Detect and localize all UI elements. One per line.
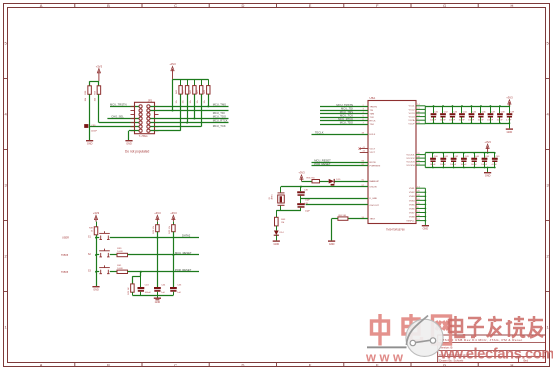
wire OSC mid node (300, 196, 302, 203)
svg-text:VCCIO4: VCCIO4 (406, 165, 415, 167)
watermark cntronics logo chars (372, 314, 451, 346)
wire R47 to row6 (201, 94, 203, 127)
wire R45 to row5 (187, 94, 189, 123)
frame grid numbers 5-1 (4, 41, 549, 330)
resistor R46 (194, 79, 196, 85)
svg-text:RSTN: RSTN (370, 162, 376, 164)
wire POR_RESET / pin PORRSTN (312, 165, 369, 167)
svg-text:10k: 10k (190, 100, 192, 103)
svg-text:+3V3: +3V3 (484, 140, 491, 144)
svg-text:CHG_SEL: CHG_SEL (111, 115, 124, 119)
svg-text:VCC4: VCC4 (409, 117, 416, 119)
capacitor C43 (reset filter) (140, 276, 142, 287)
svg-text:+3V3: +3V3 (169, 62, 176, 66)
watermark cntronics chip logo (406, 316, 443, 357)
svg-text:VSS7: VSS7 (409, 212, 415, 214)
svg-text:TECLK: TECLK (315, 130, 324, 134)
svg-text:ww.elecfans.com: ww.elecfans.com (440, 346, 553, 362)
capacitor C42 (453, 153, 455, 158)
svg-text:10k: 10k (197, 100, 199, 103)
svg-text:E: E (309, 362, 312, 367)
svg-text:GND: GND (329, 243, 335, 246)
capacitor C49 (494, 153, 496, 158)
capacitor C37 (490, 106, 492, 113)
svg-text:10pF: 10pF (305, 200, 311, 202)
svg-text:100R: 100R (117, 251, 123, 253)
supply +3V3 (cap bank 2) (487, 146, 489, 153)
capacitor C41 (443, 153, 445, 158)
svg-text:100nF: 100nF (450, 164, 457, 166)
wire OSCOUT (306, 204, 368, 206)
svg-text:GND: GND (87, 143, 93, 146)
svg-text:VCCIO1: VCCIO1 (406, 155, 415, 157)
svg-text:K_GND: K_GND (370, 198, 378, 200)
pin V1CT (unconnected stub) (360, 148, 368, 150)
svg-text:ECLK: ECLK (370, 134, 376, 136)
supply +3V3 (cap bank 1) (508, 102, 510, 106)
svg-text:+3V3: +3V3 (154, 211, 161, 215)
supply +3V3 (R33) (172, 218, 174, 222)
svg-text:4MHz: 4MHz (272, 194, 274, 199)
wire S3 to R41 (110, 271, 117, 273)
svg-text:10k: 10k (204, 100, 206, 103)
resistor R38 1k (96, 222, 98, 227)
wire JTAG row4 out (MCU_TDO) (148, 118, 228, 120)
svg-text:VCC2: VCC2 (409, 109, 416, 111)
svg-text:VSSPLL: VSSPLL (406, 221, 415, 223)
svg-text:VCC3: VCC3 (409, 113, 416, 115)
svg-text:100nF: 100nF (449, 120, 456, 122)
ground GND (TEST) (331, 239, 333, 241)
wire OSCIN (281, 186, 368, 188)
svg-text:POR_RESET: POR_RESET (314, 162, 331, 166)
svg-text:USER: USER (62, 236, 69, 239)
resistor R33 10k (173, 222, 175, 225)
wire JTAG row5 out (MCU_RTCK) (148, 122, 228, 124)
svg-text:10pF: 10pF (305, 210, 311, 212)
svg-text:MCU_TMS: MCU_TMS (340, 110, 353, 114)
svg-text:T0505: T0505 (61, 271, 69, 274)
capacitor C35 (471, 106, 473, 113)
supply +3V3 (R38) (95, 218, 97, 222)
svg-text:MCU_TCK: MCU_TCK (213, 124, 226, 128)
svg-text:w w w: w w w (365, 350, 403, 365)
svg-text:+3V3: +3V3 (170, 211, 177, 215)
supply +3V3 (JTAG pullups left) (98, 71, 100, 82)
wire GND bus 2 (425, 167, 495, 169)
resistor R45 (187, 79, 189, 85)
wire MCU_TDI / pin TDI (320, 110, 368, 112)
ground GND (cap bank 1) (509, 123, 511, 128)
svg-text:TCK: TCK (370, 117, 375, 119)
wire +3V3 to R35 (302, 181, 313, 183)
svg-text:R34 10k: R34 10k (153, 226, 155, 233)
resistor R43 1M (275, 217, 279, 226)
resistor R36 1M (131, 284, 135, 292)
diode D14 (276, 226, 278, 231)
switch S2 (99, 249, 110, 257)
svg-text:G: G (443, 3, 446, 8)
svg-text:JP2: JP2 (148, 100, 153, 103)
capacitor C32 (442, 106, 444, 113)
capacitor C31 (433, 106, 435, 113)
wire R46 to row4 (194, 94, 196, 118)
capacitor C39 (84, 124, 88, 128)
capacitor C46 (300, 187, 302, 192)
svg-text:C: C (174, 362, 177, 367)
net label CHG_SEL / wire to JTAG row4 (107, 118, 140, 120)
svg-text:100nF: 100nF (487, 120, 494, 122)
svg-text:TMS: TMS (370, 114, 375, 116)
svg-text:+3V3: +3V3 (96, 64, 103, 68)
resistor R34 10k (157, 222, 159, 225)
wire R41 to POR_RESET net (128, 271, 200, 273)
capacitor C39 (509, 106, 511, 113)
resistor R49 (97, 86, 101, 95)
svg-text:1uF: 1uF (177, 292, 181, 294)
svg-text:VSS2: VSS2 (409, 192, 415, 194)
capacitor C44 (474, 153, 476, 158)
wire VCC bus (top) (425, 106, 509, 108)
wire R33 column down to C45 (173, 232, 175, 287)
svg-text:4.7uF: 4.7uF (492, 164, 498, 166)
wire ECLK pin (312, 134, 369, 136)
svg-text:TDO: TDO (370, 124, 375, 126)
wire +3V3 column to row2 (172, 79, 174, 110)
svg-text:1uF: 1uF (161, 292, 165, 294)
wire S2 to R39 (110, 254, 117, 256)
ground GND (below C39) (89, 139, 91, 141)
svg-text:100nF: 100nF (471, 164, 478, 166)
svg-text:R35 7k5: R35 7k5 (307, 177, 316, 179)
svg-text:R33 10k: R33 10k (169, 226, 171, 233)
svg-text:+3V3: +3V3 (93, 211, 100, 215)
resistor R50 (88, 86, 92, 95)
wire JTAG row2 out (MCU_TDI) (148, 110, 228, 112)
svg-text:GND: GND (423, 228, 429, 231)
wire pullup bus (173, 79, 209, 81)
resistor R48 (208, 79, 210, 85)
wire MCU_TCK / pin TCK (320, 117, 368, 119)
svg-text:VSS6: VSS6 (409, 208, 415, 210)
svg-text:GND: GND (155, 301, 161, 304)
wire MCU_TRSTN / pin TRSTN (320, 106, 368, 108)
svg-text:VCCIO3: VCCIO3 (406, 162, 415, 164)
svg-text:G: G (443, 362, 446, 367)
capacitor C45 (170, 287, 177, 289)
wire JTAG row1 out (MCU_TMS) (148, 106, 228, 108)
svg-text:VSS1: VSS1 (409, 188, 415, 190)
watermark gray underline (367, 346, 407, 348)
svg-text:H: H (510, 3, 513, 8)
wire R48 to row1 (208, 94, 210, 106)
wire junction to R36 (140, 271, 142, 273)
svg-text:MCU_TDO: MCU_TDO (213, 115, 226, 119)
wire +3V3 to R49/R50 tops (90, 81, 99, 83)
resistor R39 100R (117, 253, 128, 256)
wire GND bus (below caps) (425, 123, 509, 125)
pin V2CT (unconnected stub) (360, 152, 368, 154)
wire R39 to MCU_RESET net (128, 254, 200, 256)
svg-text:MCU_RESET: MCU_RESET (314, 158, 331, 162)
svg-text:WAKEUP: WAKEUP (370, 180, 380, 183)
capacitor C48 (297, 203, 305, 205)
svg-text:+3V3: +3V3 (298, 171, 305, 175)
svg-text:GND: GND (93, 289, 99, 292)
supply +3V3 (JTAG pullup bank) (172, 69, 174, 80)
wire cap bottom bus (132, 295, 173, 297)
svg-text:OSCIN: OSCIN (370, 187, 377, 189)
svg-text:GND: GND (274, 243, 280, 246)
svg-text:R42 0R: R42 0R (339, 215, 347, 217)
svg-text:MCU_TCK: MCU_TCK (340, 113, 353, 117)
resistor R41 100R (117, 270, 128, 273)
svg-text:VCCA: VCCA (408, 119, 415, 122)
svg-text:OSCOUT: OSCOUT (370, 205, 380, 207)
capacitor C45 (484, 153, 486, 158)
svg-text:100nF: 100nF (459, 120, 466, 122)
svg-text:GND: GND (507, 131, 513, 134)
svg-text:10k: 10k (183, 100, 185, 103)
svg-text:100nF: 100nF (481, 164, 488, 166)
svg-text:1M: 1M (281, 222, 284, 224)
svg-text:U5A: U5A (370, 96, 376, 100)
pins VCCIO1-4 right stubs (416, 153, 425, 168)
wire stub S1 left (96, 237, 99, 239)
ground GND (caps) (157, 295, 159, 298)
svg-text:Do not populated: Do not populated (125, 149, 150, 153)
diode D15 (329, 179, 334, 184)
svg-text:MCU_TDO: MCU_TDO (340, 120, 353, 124)
svg-text:T-JTAG: T-JTAG (139, 134, 148, 138)
wire MCU_TDO / pin TDO (320, 124, 368, 126)
wire R34 column down to C44 (157, 232, 159, 287)
svg-text:C: C (174, 3, 177, 8)
svg-text:MCU_RTCK: MCU_RTCK (213, 119, 228, 123)
wire R35 to D15 (320, 181, 329, 183)
ground GND (below connector) (128, 139, 130, 141)
svg-text:MCU_TDI: MCU_TDI (341, 106, 353, 110)
svg-text:100nF: 100nF (440, 120, 447, 122)
ground GND (VSS) (424, 224, 426, 226)
wire JTAG row7 to ground (129, 130, 141, 132)
svg-text:VSS3: VSS3 (409, 196, 415, 198)
svg-text:VCCP: VCCP (408, 124, 415, 126)
switch S3 (99, 265, 110, 273)
svg-text:MCU_TDI: MCU_TDI (213, 111, 225, 115)
svg-text:T0505: T0505 (61, 254, 69, 257)
svg-text:100nF: 100nF (145, 292, 152, 294)
wire MCU_TMS / pin TMS (320, 113, 368, 115)
svg-text:MCU_RESET: MCU_RESET (175, 251, 192, 255)
pins VSS1-VSS8 VSSPLL (416, 188, 425, 225)
wire R50 bottom to JTAG pin row6 and cap C39 (89, 94, 91, 140)
svg-text:100nF: 100nF (440, 164, 447, 166)
svg-text:MCU_TRSTN: MCU_TRSTN (336, 103, 353, 107)
crystal Q1 (280, 187, 282, 193)
svg-text:GND: GND (126, 143, 132, 146)
svg-text:VCC1: VCC1 (409, 106, 416, 108)
op-amp U5 MCU TMS470 body (368, 101, 416, 224)
svg-text:A: A (40, 3, 43, 8)
ground GND (cap bank 2) (487, 168, 489, 173)
svg-text:DATA2: DATA2 (182, 234, 191, 238)
svg-text:E: E (309, 3, 312, 8)
svg-text:10k: 10k (176, 100, 178, 103)
svg-text:V1CT: V1CT (370, 149, 376, 151)
wire D15 to pin WAKEUP (335, 181, 369, 183)
wire MCU_RTCK / pin RTCK (320, 120, 368, 122)
svg-text:B: B (107, 362, 110, 367)
svg-text:A: A (40, 362, 43, 367)
svg-text:100nF: 100nF (478, 120, 485, 122)
watermark elecfans chars (449, 316, 543, 338)
svg-text:R36 1M: R36 1M (128, 287, 130, 294)
wire stub S2 left (96, 254, 99, 256)
svg-text:D: D (241, 3, 244, 8)
wire S1-S3 common to ground (96, 235, 98, 286)
svg-text:VSS4: VSS4 (409, 200, 415, 202)
svg-text:VCCIO2: VCCIO2 (406, 158, 415, 160)
svg-text:100nF: 100nF (91, 131, 98, 133)
wire R44 to row7 (180, 94, 182, 131)
svg-text:TEST: TEST (370, 219, 376, 221)
svg-text:+3V3: +3V3 (506, 96, 513, 100)
svg-text:100nF: 100nF (430, 164, 437, 166)
resistor R47 (201, 79, 203, 85)
capacitor C40 (432, 153, 434, 158)
svg-text:VSS8: VSS8 (409, 216, 415, 218)
wire stub S3 left (96, 271, 99, 273)
svg-text:MCU_RTCK: MCU_RTCK (338, 117, 353, 121)
capacitor C38 (499, 106, 501, 113)
resistor R35 7k5 (312, 180, 320, 183)
wire S1 to DATA2 net (110, 237, 199, 239)
capacitor C43 (463, 153, 465, 158)
svg-text:VSS5: VSS5 (409, 204, 415, 206)
wire R42 to ground (332, 218, 338, 220)
svg-text:D: D (241, 362, 244, 367)
title block (438, 335, 546, 363)
svg-text:100nF: 100nF (430, 120, 437, 122)
svg-text:B: B (107, 3, 110, 8)
svg-text:100nF: 100nF (461, 164, 468, 166)
svg-text:4.7uF: 4.7uF (506, 120, 512, 122)
pins VCC1-VCC4 VCCA VCCP right stubs (416, 106, 425, 124)
svg-text:TMS470R1B768: TMS470R1B768 (386, 229, 405, 232)
resistor R44 (180, 79, 182, 85)
svg-text:RTCK: RTCK (370, 121, 376, 123)
wire TEST pin to R42 (348, 218, 368, 220)
wire VCCIO bus (top) (425, 152, 495, 154)
wire MCU_RESET / pin RSTN (312, 162, 369, 164)
svg-text:100nF: 100nF (468, 120, 475, 122)
svg-text:MCU_TRSTN: MCU_TRSTN (110, 102, 127, 106)
svg-text:TDI: TDI (370, 110, 374, 112)
svg-text:100R: 100R (117, 268, 123, 270)
ground GND (osc) (275, 239, 277, 241)
connector left pin stubs (131, 106, 159, 130)
net label MCU_TRSTN / wire to JTAG row1 (110, 106, 141, 108)
switch S1 (99, 231, 110, 239)
svg-text:H: H (510, 362, 513, 367)
connector JP2 T-JTAG 2x7 header (135, 102, 155, 133)
capacitor C36 (480, 106, 482, 113)
supply +3V3 (WAKEUP) (301, 177, 303, 181)
capacitor C33 (452, 106, 454, 113)
svg-text:GND: GND (485, 175, 491, 178)
supply +3V3 (R34) (156, 218, 158, 222)
svg-text:POR_RESET: POR_RESET (175, 268, 192, 272)
resistor R42 0R (338, 217, 348, 220)
connector JP2 pin circles (overlay) (139, 105, 150, 132)
wire R49 bottom to JTAG pin row5 (98, 94, 100, 122)
ground GND (buttons) (95, 285, 97, 287)
svg-text:V2CT: V2CT (370, 152, 376, 154)
wire osc ground bus (276, 210, 301, 212)
svg-text:MCU_TMS: MCU_TMS (213, 103, 226, 107)
svg-text:PORRSTN: PORRSTN (370, 166, 381, 168)
svg-text:TRSTN: TRSTN (370, 107, 378, 109)
capacitor C34 (461, 106, 463, 113)
capacitor C44 (154, 287, 161, 289)
svg-text:100nF: 100nF (497, 120, 504, 122)
